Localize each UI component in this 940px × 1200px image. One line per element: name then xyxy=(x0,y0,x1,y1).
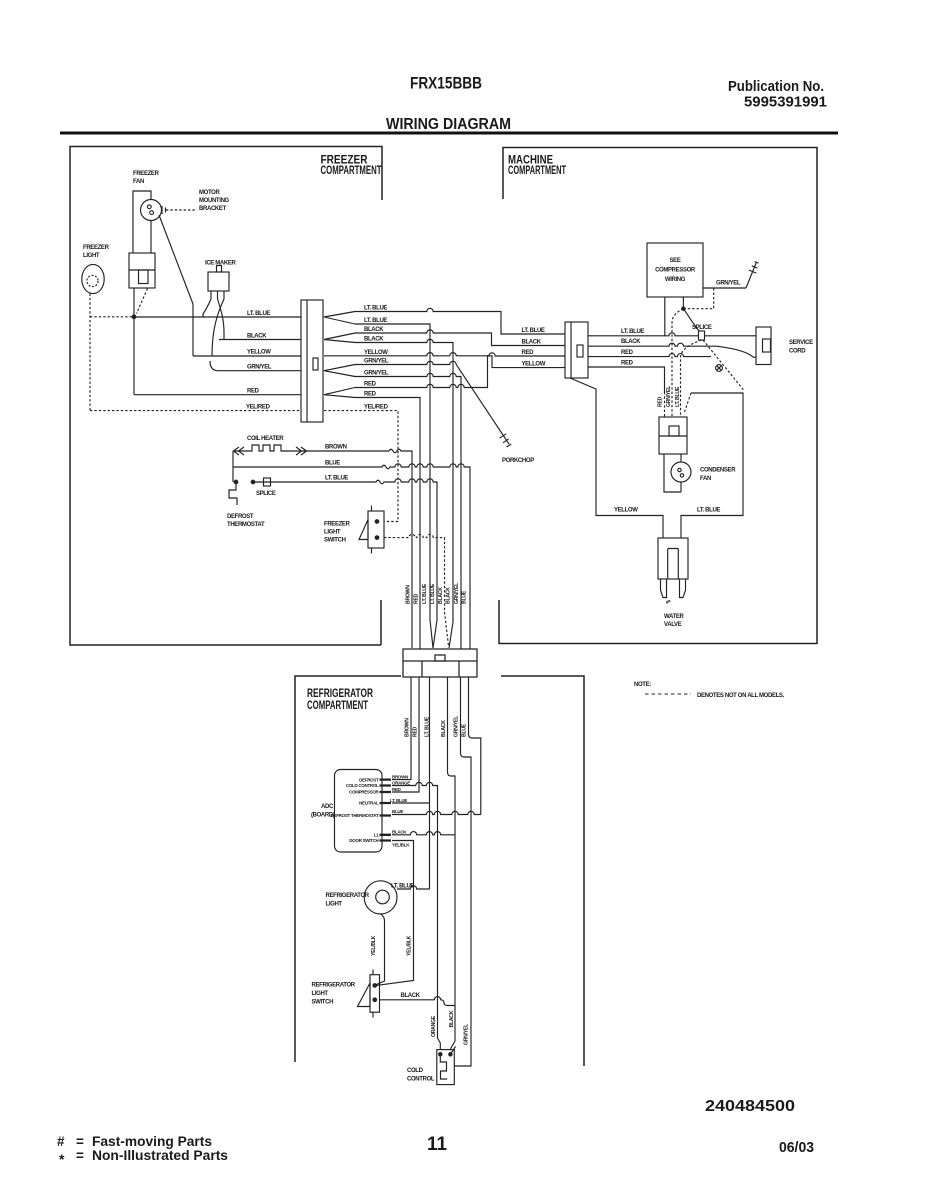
svg-text:LT. BLUE: LT. BLUE xyxy=(364,318,387,324)
svg-text:BLUE: BLUE xyxy=(325,461,340,467)
wire lt.blue row to service cord xyxy=(588,333,756,336)
svg-text:ICE MAKER: ICE MAKER xyxy=(205,261,237,267)
wire yel/blk from door switch xyxy=(376,841,414,986)
wire grn/yel dashed jumper xyxy=(683,288,713,309)
svg-text:ORANGE: ORANGE xyxy=(392,780,410,785)
freezer compartment border xyxy=(70,147,382,646)
svg-text:FRX15BBB: FRX15BBB xyxy=(410,74,482,93)
svg-text:GRN/YEL: GRN/YEL xyxy=(464,1023,470,1045)
wire YELLOW row freezer xyxy=(193,355,301,357)
svg-text:LT. BLUE: LT. BLUE xyxy=(422,583,428,604)
svg-text:SWITCH: SWITCH xyxy=(312,1000,334,1006)
adc board xyxy=(335,770,383,853)
svg-text:COMPARTMENT: COMPARTMENT xyxy=(508,163,566,177)
svg-text:LIGHT: LIGHT xyxy=(312,991,329,997)
terminal V-split grn/yel xyxy=(324,365,355,377)
svg-text:BROWN: BROWN xyxy=(406,585,412,604)
wire red bundle to adc xyxy=(392,677,419,792)
wire LT. BLUE row freezer xyxy=(134,316,301,318)
wire yellow to machine connector xyxy=(324,353,565,368)
svg-text:FREEZER: FREEZER xyxy=(133,171,160,177)
svg-text:LT. BLUE: LT. BLUE xyxy=(425,716,431,737)
adc terminal stubs xyxy=(380,780,392,841)
wire blue row from adc xyxy=(392,811,481,814)
machine compartment border xyxy=(499,148,817,644)
wire GRN/YEL row freezer xyxy=(218,370,301,372)
wire black to machine connector xyxy=(355,330,565,346)
svg-text:REFRIGERATOR: REFRIGERATOR xyxy=(312,983,356,989)
svg-text:YEL/BLK: YEL/BLK xyxy=(371,935,377,956)
svg-text:GRN/YEL: GRN/YEL xyxy=(364,371,389,377)
svg-text:BLACK: BLACK xyxy=(364,337,384,343)
svg-text:#=Fast-moving Parts: #=Fast-moving Parts xyxy=(57,1134,212,1149)
wire grn/yel bundle down xyxy=(455,677,472,1066)
svg-text:THERMOSTAT: THERMOSTAT xyxy=(227,522,265,528)
svg-text:YEL/RED: YEL/RED xyxy=(364,405,389,411)
svg-text:BLUE: BLUE xyxy=(462,723,468,737)
freezer light bulb xyxy=(82,264,104,293)
wire black row to service cord xyxy=(588,343,756,357)
svg-text:L1: L1 xyxy=(374,833,379,838)
ground chassis symbol xyxy=(746,262,759,289)
wire lt.blue valve loop xyxy=(681,393,743,538)
svg-text:DEFROST: DEFROST xyxy=(359,777,379,782)
wire black drop to bundle xyxy=(355,339,453,648)
splice square xyxy=(264,478,271,486)
motor mounting bracket pointer xyxy=(162,206,166,214)
svg-text:LT. BLUE: LT. BLUE xyxy=(697,508,720,514)
svg-text:BLACK: BLACK xyxy=(438,587,444,604)
header rule xyxy=(60,132,838,135)
svg-text:SWITCH: SWITCH xyxy=(324,538,346,544)
svg-text:RED: RED xyxy=(658,396,664,407)
svg-text:DOOR SWITCH: DOOR SWITCH xyxy=(349,838,378,843)
terminal V-split black xyxy=(324,333,355,343)
svg-text:BLACK: BLACK xyxy=(401,993,421,999)
svg-text:COMPARTMENT: COMPARTMENT xyxy=(321,163,382,177)
wire grn/yel dashed to relay xyxy=(672,309,683,417)
svg-text:GRN/YEL: GRN/YEL xyxy=(364,359,389,365)
svg-text:LT. BLUE: LT. BLUE xyxy=(390,798,407,803)
splice square machine xyxy=(699,331,705,340)
svg-text:GRN/YEL: GRN/YEL xyxy=(454,715,460,737)
wire fan lead to yellow row xyxy=(159,215,193,356)
svg-text:CORD: CORD xyxy=(789,349,806,355)
svg-text:SPLICE: SPLICE xyxy=(692,325,712,331)
svg-text:LT. BLUE: LT. BLUE xyxy=(522,328,545,334)
wire compressor lead right xyxy=(682,297,684,309)
svg-text:WATER: WATER xyxy=(664,614,684,620)
svg-text:RED: RED xyxy=(364,392,377,398)
svg-text:RED: RED xyxy=(414,593,420,604)
svg-text:RED: RED xyxy=(247,389,260,395)
defrost thermostat xyxy=(234,480,238,484)
svg-text:DEFROST: DEFROST xyxy=(227,514,254,520)
compressor wiring box xyxy=(647,243,703,297)
svg-text:BLACK: BLACK xyxy=(522,340,542,346)
svg-text:COLD CONTROL: COLD CONTROL xyxy=(346,783,379,788)
svg-text:LT. BLUE: LT. BLUE xyxy=(364,306,387,312)
svg-text:YEL/RED: YEL/RED xyxy=(246,405,271,411)
wire lt.blue to light xyxy=(397,886,430,889)
svg-text:COMPRESSOR: COMPRESSOR xyxy=(655,268,696,274)
wire dashed into relay from loop corner xyxy=(684,393,691,414)
connector freezer harness xyxy=(301,300,323,422)
wire red to machine connector xyxy=(355,353,565,388)
wire brown bundle to adc xyxy=(392,677,411,780)
svg-text:=Non-Illustrated Parts: =Non-Illustrated Parts xyxy=(76,1148,228,1163)
node junction xyxy=(682,307,685,310)
svg-text:RED: RED xyxy=(364,382,377,388)
svg-text:06/03: 06/03 xyxy=(779,1139,814,1156)
wire junction to splice xyxy=(683,309,700,332)
svg-text:GRN/YEL: GRN/YEL xyxy=(454,582,460,604)
refrigerator light switch xyxy=(370,975,380,1013)
wire lt.blue dashed splice to relay xyxy=(681,340,702,417)
svg-text:BROWN: BROWN xyxy=(392,774,408,779)
wire lt.blue dashed with ground mark to valve loop xyxy=(703,340,744,391)
svg-text:*: * xyxy=(59,1151,65,1167)
svg-text:COLD: COLD xyxy=(407,1068,424,1074)
svg-text:240484500: 240484500 xyxy=(705,1098,795,1115)
wire compressor lead left xyxy=(664,297,666,336)
svg-text:BROWN: BROWN xyxy=(325,445,347,451)
svg-text:SPLICE: SPLICE xyxy=(256,491,276,497)
ice maker connector xyxy=(208,272,229,291)
svg-text:DENOTES NOT ON ALL MODELS.: DENOTES NOT ON ALL MODELS. xyxy=(697,693,785,699)
ground porkchop hatches xyxy=(500,434,512,447)
svg-text:BRACKET: BRACKET xyxy=(199,206,227,212)
wire red row 2 to relay xyxy=(588,367,665,392)
connector machine harness xyxy=(565,322,588,378)
wire BLACK row freezer xyxy=(219,339,301,341)
freezer fan motor body xyxy=(129,253,155,288)
water valve connector xyxy=(658,538,688,579)
svg-text:BLACK: BLACK xyxy=(247,334,267,340)
svg-text:VALVE: VALVE xyxy=(664,622,682,628)
svg-text:FAN: FAN xyxy=(133,179,144,185)
svg-text:COMPARTMENT: COMPARTMENT xyxy=(307,698,368,712)
wire grn/yel to porkchop ground xyxy=(355,361,509,444)
wire yel/red dashed to light switch xyxy=(324,411,398,522)
wire lt.blue to machine connector xyxy=(355,308,565,334)
compressor relay block xyxy=(659,417,687,454)
terminal V-split lt.blue xyxy=(324,312,355,325)
compartment borders xyxy=(70,147,817,1067)
svg-text:LT. BLUE: LT. BLUE xyxy=(675,386,681,407)
svg-text:MOTOR: MOTOR xyxy=(199,190,220,196)
svg-text:YELLOW: YELLOW xyxy=(247,350,271,356)
svg-text:GRN/YEL: GRN/YEL xyxy=(666,385,672,407)
svg-text:COIL HEATER: COIL HEATER xyxy=(247,436,284,442)
wire black bundle down xyxy=(448,677,456,1049)
svg-text:BLUE: BLUE xyxy=(462,590,468,604)
refrigerator light bulb xyxy=(364,881,397,914)
freezer fan lead to red row xyxy=(133,288,135,395)
svg-text:YEL/BLK: YEL/BLK xyxy=(392,843,410,848)
svg-text:BLUE: BLUE xyxy=(392,809,403,814)
svg-text:BROWN: BROWN xyxy=(405,718,411,737)
freezer light switch xyxy=(368,511,384,548)
svg-text:COMPRESSOR: COMPRESSOR xyxy=(349,790,380,795)
wire black L1 row from adc xyxy=(392,832,455,835)
svg-text:BLACK: BLACK xyxy=(446,587,452,604)
wire YEL/RED row freezer (dashed) xyxy=(90,410,301,412)
wire fan dashed lead xyxy=(137,289,148,314)
svg-text:BLACK: BLACK xyxy=(364,327,384,333)
wire grn/yel to ground xyxy=(703,287,746,289)
wire black from light switch xyxy=(380,997,456,1006)
svg-text:SERVICE: SERVICE xyxy=(789,340,813,346)
svg-text:GRN/YEL: GRN/YEL xyxy=(716,281,741,287)
svg-text:SEE: SEE xyxy=(670,258,681,264)
terminal V-split red xyxy=(324,388,355,398)
refrigerator compartment border xyxy=(295,676,584,1066)
svg-text:NEUTRAL: NEUTRAL xyxy=(359,801,379,806)
svg-text:CONDENSER: CONDENSER xyxy=(700,468,736,474)
svg-text:YELLOW: YELLOW xyxy=(522,362,546,368)
wire lt.blue bundle to adc and light xyxy=(392,677,430,889)
svg-text:ORANGE: ORANGE xyxy=(431,1015,437,1037)
svg-text:LT. BLUE: LT. BLUE xyxy=(621,329,644,335)
freezer fan motor xyxy=(141,200,162,221)
service cord connector xyxy=(756,327,771,365)
svg-text:FREEZER: FREEZER xyxy=(83,245,110,251)
wire blue bundle down xyxy=(469,677,481,815)
wire yel/blk from light xyxy=(374,914,385,986)
ground mark circle-x xyxy=(716,365,723,372)
svg-text:LT. BLUE: LT. BLUE xyxy=(391,884,414,890)
svg-text:BLACK: BLACK xyxy=(392,829,407,834)
svg-text:BLACK: BLACK xyxy=(621,339,641,345)
svg-text:Publication No.: Publication No. xyxy=(728,78,824,95)
svg-text:11: 11 xyxy=(427,1134,447,1155)
svg-text:GRN/YEL: GRN/YEL xyxy=(247,365,272,371)
svg-text:ADC: ADC xyxy=(321,804,334,810)
svg-text:RED: RED xyxy=(413,726,419,737)
svg-text:CONTROL: CONTROL xyxy=(407,1077,435,1083)
wire brown row xyxy=(389,449,412,648)
svg-text:REFRIGERATOR: REFRIGERATOR xyxy=(326,893,370,899)
svg-text:RED: RED xyxy=(621,350,634,356)
svg-text:NOTE:: NOTE: xyxy=(634,682,651,688)
svg-text:WIRING DIAGRAM: WIRING DIAGRAM xyxy=(386,116,511,133)
svg-text:WIRING: WIRING xyxy=(665,277,686,283)
svg-text:FAN: FAN xyxy=(700,476,711,482)
svg-text:MOUNTING: MOUNTING xyxy=(199,198,230,204)
wire ice maker leads xyxy=(203,299,224,371)
wire grn/yel drop to bundle xyxy=(355,373,461,649)
wire RED row freezer xyxy=(134,394,301,396)
svg-text:LIGHT: LIGHT xyxy=(324,530,341,536)
wire light switch to bundle (dashed black) xyxy=(384,534,449,646)
svg-text:RED: RED xyxy=(621,361,634,367)
svg-text:5995391991: 5995391991 xyxy=(744,94,827,111)
svg-text:BLACK: BLACK xyxy=(441,720,447,737)
svg-text:LT. BLUE: LT. BLUE xyxy=(247,311,270,317)
svg-text:RED: RED xyxy=(522,350,535,356)
wire yellow to valve loop xyxy=(570,378,663,538)
svg-text:DEFROST THERMOSTAT: DEFROST THERMOSTAT xyxy=(331,813,379,818)
wire lt. blue heater row xyxy=(253,479,437,648)
wire red drop to bundle xyxy=(355,398,420,650)
svg-text:LIGHT: LIGHT xyxy=(83,253,100,259)
node junction freezer neutral xyxy=(132,315,136,319)
condenser fan motor xyxy=(664,454,681,492)
svg-text:FREEZER: FREEZER xyxy=(324,522,351,528)
wire orange from adc xyxy=(392,782,440,1049)
svg-text:PORKCHOP: PORKCHOP xyxy=(502,458,534,464)
wire blue row xyxy=(233,451,470,649)
svg-text:YEL/BLK: YEL/BLK xyxy=(407,935,413,956)
wire red row 1 xyxy=(588,354,711,357)
coil heater element xyxy=(233,445,389,451)
svg-text:YELLOW: YELLOW xyxy=(614,508,638,514)
svg-text:LIGHT: LIGHT xyxy=(326,902,343,908)
wire freezer light leads (dashed) xyxy=(90,294,134,411)
wire lt.blue drop to bundle xyxy=(355,324,433,648)
connector main harness (center) xyxy=(403,649,477,677)
svg-text:BLACK: BLACK xyxy=(449,1010,455,1027)
cold control switch xyxy=(437,1050,455,1085)
svg-text:LT. BLUE: LT. BLUE xyxy=(325,476,348,482)
svg-text:RED: RED xyxy=(392,787,402,792)
svg-text:LT. BLUE: LT. BLUE xyxy=(430,583,436,604)
svg-text:YELLOW: YELLOW xyxy=(364,350,388,356)
